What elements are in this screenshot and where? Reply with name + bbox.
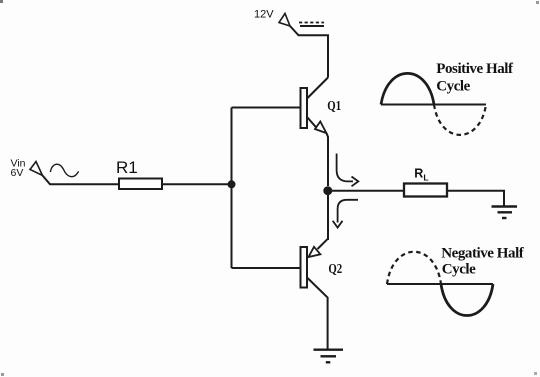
wire RL to ground <box>447 191 504 206</box>
transistor Q2 base bar <box>301 247 308 288</box>
waveform negative half cycle <box>387 252 493 316</box>
svg-text:Cycle: Cycle <box>436 78 470 94</box>
wire output node down to Q2 emitter <box>327 195 329 240</box>
resistor RL <box>404 184 447 197</box>
arrow current top (curved) <box>337 154 353 182</box>
svg-text:Q1: Q1 <box>327 99 341 114</box>
svg-text:Negative Half: Negative Half <box>441 245 524 261</box>
transistor Q2 emitter with PNP arrow <box>318 239 328 249</box>
svg-text:Q2: Q2 <box>328 262 342 277</box>
corner mark top-left <box>0 0 3 3</box>
node base trunk junction <box>228 180 236 188</box>
sine squiggle at input <box>50 164 78 176</box>
svg-text:R1: R1 <box>116 158 138 177</box>
terminal 12V (input pin triangle) <box>279 14 290 27</box>
transistor Q1 emitter with NPN arrow <box>307 117 317 128</box>
wire output to RL <box>328 190 404 192</box>
wire 12V supply to rail corner <box>290 26 328 78</box>
terminal Vin (input pin triangle) <box>30 162 43 176</box>
waveform positive half cycle <box>381 73 486 135</box>
svg-text:12V: 12V <box>254 9 274 21</box>
wire input to R1 <box>43 176 120 185</box>
corner mark bottom-left <box>1 373 4 376</box>
wire R1 to base trunk <box>162 183 232 185</box>
svg-text:Cycle: Cycle <box>442 261 476 277</box>
ground bottom <box>314 350 344 363</box>
svg-text:Positive Half: Positive Half <box>436 61 514 77</box>
transistor Q1 base bar <box>301 88 308 128</box>
wire Q1 collector diagonal <box>307 78 328 99</box>
resistor R1 <box>119 179 162 190</box>
node output junction <box>323 186 332 195</box>
wire base trunk vertical <box>231 108 233 269</box>
wire Q2 base <box>232 267 301 269</box>
svg-text:6V: 6V <box>11 167 24 179</box>
wire Q1 emitter to output node <box>326 133 328 186</box>
wire Q1 base <box>232 107 301 109</box>
ground right <box>492 207 518 219</box>
wire Q2 collector diagonal <box>307 278 328 350</box>
supply rail dashed line <box>299 22 324 24</box>
corner mark bottom-right <box>534 372 537 375</box>
supply rail solid line <box>300 25 324 27</box>
corner mark top-right <box>536 1 539 4</box>
arrow current bottom (curved) <box>338 200 358 223</box>
